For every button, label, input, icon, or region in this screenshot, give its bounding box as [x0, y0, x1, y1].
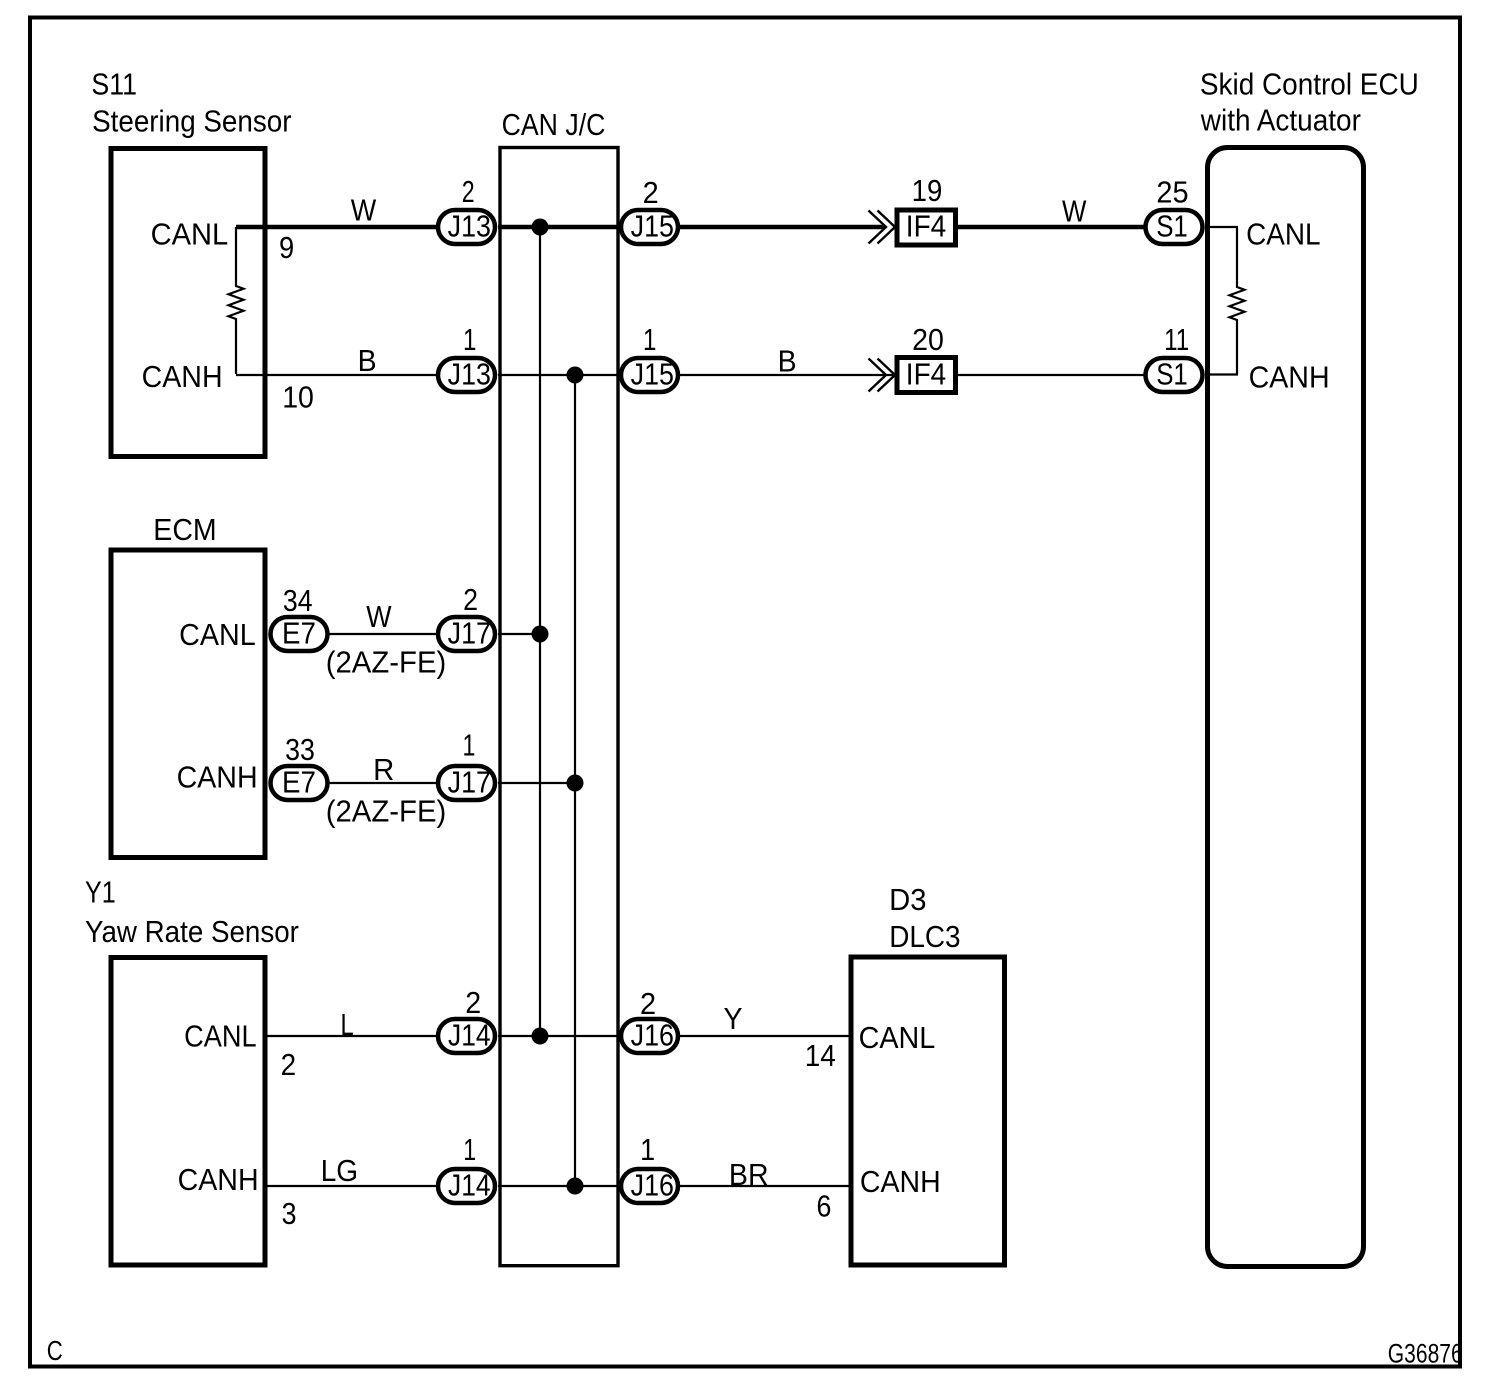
wire BR J16 to DLC3	[680, 1185, 851, 1187]
wire J17-2 to bus	[498, 633, 540, 635]
svg-text:IF4: IF4	[906, 357, 946, 392]
svg-text:W: W	[366, 599, 392, 634]
svg-text:ECM: ECM	[153, 512, 216, 547]
svg-text:IF4: IF4	[906, 209, 946, 244]
svg-text:(2AZ-FE): (2AZ-FE)	[326, 793, 447, 828]
svg-text:J17: J17	[448, 765, 491, 800]
svg-text:(2AZ-FE): (2AZ-FE)	[326, 644, 447, 679]
svg-text:2: 2	[462, 174, 475, 209]
svg-text:2: 2	[643, 175, 659, 210]
svg-text:6: 6	[817, 1188, 832, 1223]
svg-text:S1: S1	[1156, 209, 1188, 244]
svg-text:3: 3	[282, 1196, 297, 1231]
connector J15 pin 2	[621, 210, 678, 244]
wire W steering CANL to J13	[236, 225, 437, 230]
svg-text:Steering Sensor: Steering Sensor	[92, 103, 291, 138]
chevrons into IF4 20	[869, 359, 896, 392]
connector S1 pin 25	[1146, 210, 1203, 244]
svg-text:E7: E7	[282, 616, 316, 651]
svg-text:Yaw Rate Sensor: Yaw Rate Sensor	[85, 914, 299, 949]
svg-text:B: B	[358, 343, 377, 378]
svg-text:L: L	[341, 1007, 354, 1042]
wire skid CANH internal	[1206, 373, 1238, 375]
connector J16 pin 2	[621, 1019, 678, 1053]
svg-text:CANH: CANH	[1249, 359, 1330, 394]
svg-text:CANH: CANH	[178, 1162, 259, 1197]
svg-text:CANL: CANL	[151, 216, 229, 251]
wire row6 inside CAN J/C	[498, 1185, 619, 1187]
svg-text:34: 34	[283, 583, 313, 618]
svg-text:2: 2	[463, 582, 478, 617]
svg-text:CANL: CANL	[1246, 216, 1321, 251]
junction yaw CANH	[567, 1178, 584, 1195]
svg-text:10: 10	[282, 379, 314, 414]
svg-text:CANH: CANH	[177, 759, 258, 794]
svg-text:CANH: CANH	[860, 1164, 941, 1199]
svg-text:LG: LG	[321, 1153, 358, 1188]
connector J15 pin 1	[621, 358, 678, 392]
svg-text:J16: J16	[631, 1018, 674, 1053]
connector E7 pin 33	[271, 766, 328, 800]
svg-text:CANL: CANL	[179, 617, 256, 652]
wire B J15 to IF4	[680, 374, 894, 376]
svg-text:W: W	[351, 193, 377, 228]
wire row1 inside CAN J/C	[498, 225, 619, 230]
svg-text:C: C	[47, 1335, 63, 1366]
svg-text:1: 1	[640, 1132, 655, 1167]
resistor in skid control ECU	[1230, 227, 1245, 375]
resistor in steering sensor	[229, 227, 244, 374]
CANH bus vertical line	[574, 375, 576, 1186]
connector S1 pin 11	[1146, 358, 1203, 392]
svg-text:G36876: G36876	[1388, 1339, 1463, 1369]
chevrons into IF4 19	[869, 211, 896, 244]
svg-text:Skid Control ECU: Skid Control ECU	[1200, 67, 1419, 102]
junction row2	[567, 367, 584, 384]
wire B IF4 to S1	[956, 374, 1144, 376]
svg-text:S11: S11	[91, 67, 137, 102]
junction ECM CANH	[567, 775, 584, 792]
wire W IF4 to S1	[956, 225, 1144, 230]
svg-text:J17: J17	[448, 616, 491, 651]
svg-text:9: 9	[279, 230, 294, 265]
yaw rate sensor Y1 box	[111, 958, 265, 1266]
wire J17-1 to bus	[498, 782, 575, 784]
DLC3 box	[851, 957, 1005, 1265]
connector J16 pin 1	[621, 1169, 678, 1203]
svg-text:CANL: CANL	[859, 1020, 936, 1055]
ECM box	[111, 550, 265, 858]
connector J17 pin 2	[438, 617, 495, 651]
junction yaw CANL	[532, 1028, 549, 1045]
svg-text:1: 1	[643, 322, 656, 357]
svg-text:33: 33	[285, 732, 315, 767]
svg-text:CAN J/C: CAN J/C	[502, 107, 606, 142]
svg-text:2: 2	[465, 985, 481, 1020]
connector IF4 pin 20 box	[897, 358, 956, 393]
wire W E7 to J17	[329, 633, 439, 635]
wire LG yaw CANH to J14	[265, 1185, 439, 1187]
wire R E7 to J17	[329, 782, 439, 784]
wire B steering CANH to J13	[236, 374, 437, 376]
svg-text:20: 20	[912, 322, 944, 357]
svg-text:J15: J15	[631, 357, 674, 392]
svg-text:1: 1	[463, 1132, 476, 1167]
steering sensor S11 box	[111, 149, 265, 457]
svg-text:R: R	[373, 752, 394, 787]
wire W J15 to IF4	[680, 225, 885, 230]
svg-text:25: 25	[1156, 175, 1188, 210]
connector J14 pin 1	[438, 1169, 495, 1203]
connector E7 pin 34	[271, 617, 328, 651]
connector J17 pin 1	[438, 766, 495, 800]
svg-text:CANH: CANH	[142, 359, 223, 394]
svg-text:1: 1	[463, 727, 476, 762]
CANL bus vertical line	[539, 227, 541, 1036]
svg-text:J16: J16	[631, 1168, 674, 1203]
connector J13 pin 2	[438, 210, 495, 244]
svg-text:S1: S1	[1156, 357, 1188, 392]
svg-text:14: 14	[805, 1038, 836, 1073]
svg-text:Y: Y	[724, 1001, 743, 1036]
svg-text:CANL: CANL	[184, 1019, 257, 1054]
svg-text:1: 1	[463, 322, 476, 357]
svg-text:J15: J15	[631, 209, 674, 244]
wire row5 inside CAN J/C	[498, 1035, 619, 1037]
svg-text:B: B	[778, 344, 797, 379]
svg-text:J13: J13	[448, 209, 491, 244]
junction ECM CANL	[532, 626, 549, 643]
skid control ECU box	[1208, 148, 1364, 1267]
connector J13 pin 1	[438, 358, 495, 392]
wire row2 inside CAN J/C	[498, 374, 619, 376]
connector IF4 pin 19 box	[897, 210, 956, 245]
svg-text:with Actuator: with Actuator	[1200, 102, 1361, 137]
svg-text:19: 19	[912, 173, 943, 208]
wire skid CANL internal	[1206, 226, 1238, 228]
svg-text:11: 11	[1164, 322, 1189, 357]
svg-text:2: 2	[281, 1047, 297, 1082]
svg-text:DLC3: DLC3	[889, 919, 960, 954]
svg-text:J13: J13	[448, 357, 491, 392]
svg-text:J14: J14	[448, 1168, 491, 1203]
junction row1	[532, 219, 549, 236]
svg-text:J14: J14	[448, 1018, 491, 1053]
CAN J/C box	[500, 148, 618, 1266]
connector J14 pin 2	[438, 1019, 495, 1053]
svg-text:2: 2	[640, 986, 656, 1021]
svg-text:E7: E7	[282, 765, 316, 800]
svg-text:W: W	[1062, 194, 1087, 229]
svg-text:D3: D3	[889, 882, 926, 917]
svg-text:Y1: Y1	[85, 875, 116, 910]
wire Y J16 to DLC3	[680, 1035, 851, 1037]
svg-text:BR: BR	[729, 1157, 769, 1192]
wire L yaw CANL to J14	[265, 1035, 439, 1037]
